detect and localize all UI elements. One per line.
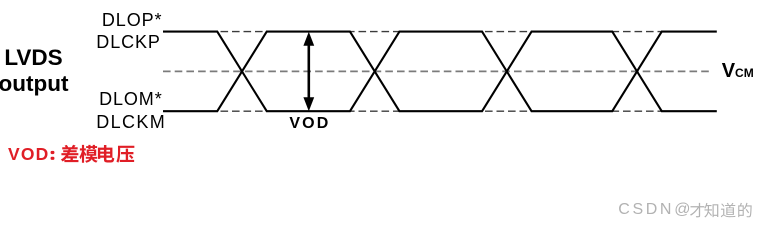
label DLCKP (96, 33, 161, 51)
label DLOP* (102, 11, 163, 29)
VOD arrowhead down (303, 97, 314, 111)
wire: signal DLOP*/DLCKP trace (163, 32, 717, 112)
dashed level line: logic-high reference (163, 31, 712, 33)
watermark char 知 (704, 203, 718, 218)
red label char 模 (79, 145, 97, 163)
watermark CSDN (618, 202, 674, 218)
watermark @ (674, 202, 690, 218)
label VOD under arrow (289, 115, 330, 133)
watermark char 才 (690, 203, 704, 218)
VOD measurement arrow shaft (307, 42, 310, 101)
VOD arrowhead up (303, 32, 314, 46)
red caption colon dot top (51, 151, 55, 154)
label VCM (722, 61, 754, 83)
red label char 压 (116, 146, 134, 163)
label DLOM* (99, 90, 163, 108)
wire: signal DLOM*/DLCKM trace (163, 32, 717, 112)
dashed level line: VCM common-mode reference (163, 70, 712, 72)
red label char 电 (98, 145, 114, 163)
red caption colon dot bottom (51, 157, 55, 160)
red label char 差 (61, 145, 79, 162)
label DLCKM (96, 113, 166, 131)
watermark char 道 (721, 203, 736, 218)
watermark char 的 (738, 203, 751, 218)
red caption VOD (8, 146, 50, 164)
label LVDS output (0, 45, 78, 96)
dashed level line: logic-low reference (163, 110, 712, 112)
